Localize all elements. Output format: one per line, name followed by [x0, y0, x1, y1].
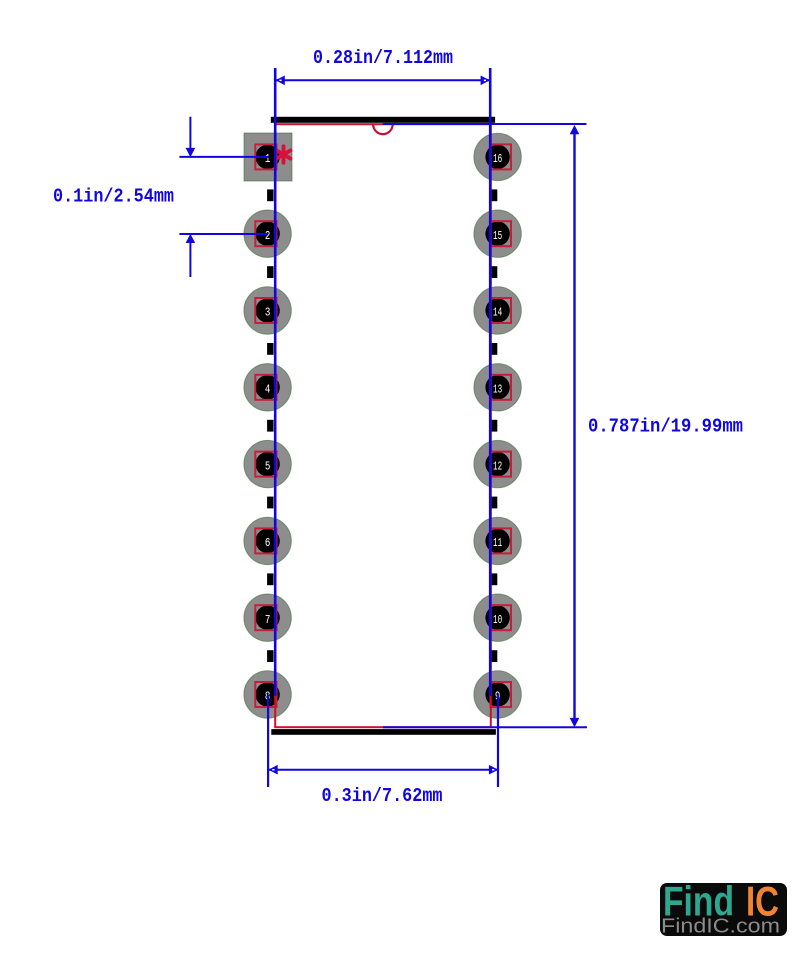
top dim extension line left	[274, 68, 277, 696]
svg-text:3: 3	[265, 306, 271, 320]
silkscreen bottom bar	[271, 729, 496, 735]
pad 12	[474, 440, 521, 487]
left dim line through pin2	[179, 233, 268, 235]
pad 5	[244, 440, 291, 487]
right dim extension bottom	[383, 726, 587, 728]
bottom dimension line	[268, 765, 498, 775]
pad 14	[474, 287, 521, 334]
pad 4	[244, 364, 291, 411]
svg-text:6: 6	[265, 536, 271, 550]
pad 3	[244, 287, 291, 334]
svg-text:0.1in/2.54mm: 0.1in/2.54mm	[53, 186, 174, 208]
svg-text:13: 13	[493, 383, 502, 397]
pad 8	[244, 671, 291, 718]
svg-text:FindIC.com: FindIC.com	[661, 916, 780, 938]
svg-text:10: 10	[493, 613, 502, 627]
silkscreen ticks left	[267, 189, 273, 662]
pin 1 marker asterisk	[277, 146, 291, 162]
svg-text:16: 16	[493, 152, 502, 166]
pad 11	[474, 517, 521, 564]
pad 1 (square)	[244, 133, 292, 181]
svg-text:0.28in/7.112mm: 0.28in/7.112mm	[313, 47, 453, 69]
bottom dim extension right (from pin9)	[497, 695, 499, 788]
left dim line through pin1	[179, 156, 268, 158]
right dimension line vertical with arrows	[570, 125, 580, 727]
bottom dim extension left (from pin8)	[267, 695, 269, 788]
top dimension line	[275, 76, 490, 86]
FindIC logo	[660, 878, 787, 938]
pad 2	[244, 210, 291, 257]
top dim extension line right	[489, 68, 492, 696]
svg-text:11: 11	[493, 536, 502, 550]
notch semicircle	[373, 124, 393, 134]
pad 6	[244, 517, 291, 564]
package body outline (red)	[275, 124, 491, 727]
svg-text:14: 14	[493, 306, 502, 320]
pad 16	[474, 133, 521, 180]
svg-text:15: 15	[493, 229, 502, 243]
silkscreen ticks right	[490, 189, 497, 662]
pad 7	[244, 594, 291, 641]
silkscreen top bar	[271, 117, 495, 123]
left dim vertical with arrows	[186, 117, 196, 277]
svg-text:0.3in/7.62mm: 0.3in/7.62mm	[322, 785, 443, 807]
svg-text:7: 7	[265, 613, 271, 627]
pad 13	[474, 364, 521, 411]
svg-text:4: 4	[265, 383, 271, 397]
pad 10	[474, 594, 521, 641]
svg-text:12: 12	[493, 459, 502, 473]
svg-text:5: 5	[265, 459, 271, 473]
svg-text:1: 1	[265, 152, 271, 166]
pad 9	[474, 671, 521, 718]
svg-text:0.787in/19.99mm: 0.787in/19.99mm	[588, 416, 743, 438]
svg-text:2: 2	[265, 229, 271, 243]
right dim extension top	[383, 123, 587, 125]
pad 15	[474, 210, 521, 257]
